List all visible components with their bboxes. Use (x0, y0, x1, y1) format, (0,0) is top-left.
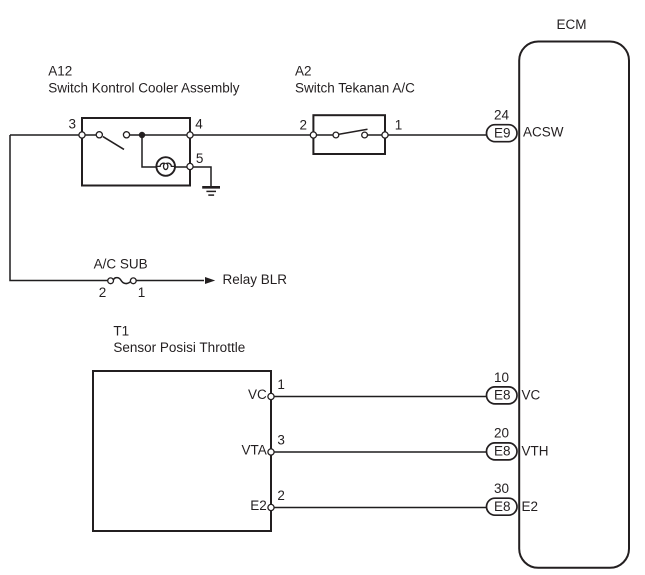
svg-text:T1: T1 (113, 323, 129, 338)
svg-text:VTH: VTH (522, 443, 549, 458)
svg-text:10: 10 (494, 370, 509, 385)
svg-text:VC: VC (248, 387, 267, 402)
svg-text:A/C SUB: A/C SUB (94, 257, 148, 272)
svg-text:1: 1 (138, 285, 146, 300)
svg-text:VC: VC (522, 388, 541, 403)
svg-text:2: 2 (99, 285, 107, 300)
svg-text:Switch Tekanan A/C: Switch Tekanan A/C (295, 80, 415, 95)
svg-text:3: 3 (277, 433, 285, 448)
svg-text:ACSW: ACSW (523, 124, 564, 139)
svg-text:E2: E2 (250, 498, 267, 513)
svg-text:1: 1 (395, 118, 403, 133)
svg-text:30: 30 (494, 481, 509, 496)
svg-text:1: 1 (277, 377, 285, 392)
svg-text:3: 3 (68, 117, 76, 132)
svg-text:2: 2 (277, 488, 285, 503)
svg-text:24: 24 (494, 108, 510, 123)
svg-text:Switch Kontrol Cooler Assembly: Switch Kontrol Cooler Assembly (48, 80, 240, 95)
svg-text:E9: E9 (494, 125, 511, 140)
svg-text:Sensor Posisi Throttle: Sensor Posisi Throttle (113, 340, 245, 355)
svg-text:E8: E8 (494, 499, 511, 514)
svg-text:E8: E8 (494, 388, 511, 403)
svg-text:E2: E2 (522, 499, 539, 514)
svg-text:ECM: ECM (557, 17, 587, 32)
svg-text:VTA: VTA (242, 443, 267, 458)
svg-text:4: 4 (195, 117, 203, 132)
svg-text:5: 5 (196, 151, 204, 166)
svg-text:Relay BLR: Relay BLR (223, 272, 288, 287)
svg-text:20: 20 (494, 426, 509, 441)
svg-text:A12: A12 (48, 64, 72, 79)
svg-text:E8: E8 (494, 444, 511, 459)
svg-text:2: 2 (299, 118, 307, 133)
svg-text:A2: A2 (295, 64, 312, 79)
